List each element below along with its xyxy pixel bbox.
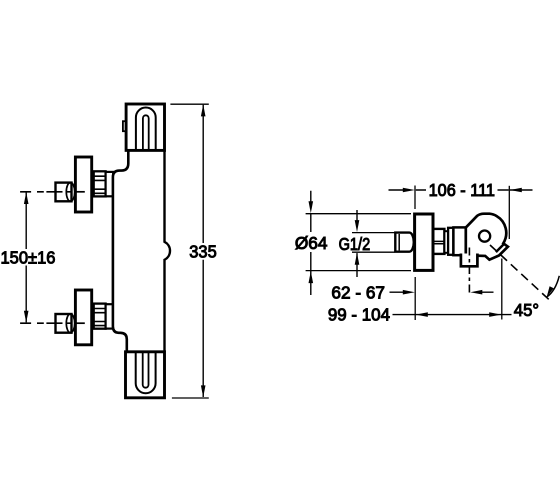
node: lower boss step collar bbox=[106, 304, 114, 328]
dimension Ø64 extension top bbox=[306, 213, 411, 215]
node: lower handle ribbed boss bbox=[94, 304, 106, 329]
wire: 45deg dashed axis bbox=[490, 245, 551, 301]
arrow 150±16 down bbox=[24, 311, 29, 323]
arrow 150±16 up bbox=[24, 192, 29, 204]
wire: upper supply centerline dashes bbox=[20, 191, 72, 193]
wire: upper centerline dash inside escutcheon bbox=[76, 191, 85, 193]
node: upper supply nut bbox=[56, 183, 72, 202]
wire: outlet centerline (dashed vertical) bbox=[468, 248, 470, 296]
dimension 335 extension line bottom bbox=[172, 397, 209, 399]
node: side collar large bbox=[453, 227, 465, 255]
dimension G1/2 extension top bbox=[352, 232, 395, 234]
arrow 62-67 right bbox=[470, 290, 482, 295]
node: bottom outlet block bbox=[461, 254, 478, 267]
node: top cap handle inner U bbox=[143, 115, 149, 150]
node: control knob circle bbox=[479, 231, 490, 242]
wire: side nut thread line bbox=[398, 234, 400, 251]
node: mixer body right contour with pipe bump bbox=[165, 151, 171, 353]
dimension 62-67 line bbox=[390, 291, 494, 293]
node: lower supply nut bbox=[56, 314, 72, 333]
node: side connector ring bbox=[444, 231, 448, 253]
node: top cap notch bbox=[123, 121, 127, 131]
arrow Ø64 bottom bbox=[309, 271, 314, 283]
arrow 106-111 right bbox=[510, 188, 522, 193]
arrow 106-111 left bbox=[403, 188, 415, 193]
dimension 106-111 extension line right bbox=[508, 186, 510, 239]
wire: 45deg arc bbox=[547, 276, 559, 297]
arrow 45deg arc bbox=[547, 286, 554, 297]
arrow 335 down bbox=[201, 385, 206, 397]
dimension 106-111 line bbox=[389, 189, 533, 191]
svg-text:150±16: 150±16 bbox=[1, 247, 56, 267]
node: body top cap bbox=[126, 104, 164, 150]
arrow 99-104 right bbox=[489, 312, 501, 317]
dimension 335 line bbox=[202, 105, 204, 397]
dimension 99-104 extension right bbox=[501, 259, 503, 320]
node: upper boss step collar bbox=[106, 172, 114, 196]
node: upper handle ribbed boss bbox=[94, 171, 106, 196]
dimension 335 extension line top bbox=[170, 103, 208, 105]
dimension Ø64 extension bottom bbox=[306, 270, 411, 272]
svg-text:106 - 111: 106 - 111 bbox=[429, 180, 495, 200]
node: top cap handle outer U bbox=[136, 108, 156, 151]
arrow Ø64 top bbox=[309, 201, 314, 213]
wire: lower centerline dash inside escutcheon bbox=[76, 322, 85, 324]
svg-text:Ø64: Ø64 bbox=[295, 233, 328, 253]
svg-text:45°: 45° bbox=[514, 300, 539, 320]
dimension 150±16 line bbox=[25, 192, 27, 322]
node: valve body with 45deg outlet bbox=[466, 214, 508, 260]
wire: lower supply centerline dashes bbox=[20, 322, 72, 324]
svg-text:335: 335 bbox=[189, 241, 216, 261]
dimension G1/2 line bbox=[356, 210, 358, 277]
svg-text:G1/2: G1/2 bbox=[339, 234, 371, 254]
wire: connector mid lines bbox=[433, 241, 444, 243]
dimension G1/2 extension bottom bbox=[352, 251, 395, 253]
arrow G1/2 bottom bbox=[355, 253, 360, 265]
node: mixer body left contour bbox=[113, 151, 128, 353]
node: side supply nut with domed end bbox=[395, 233, 413, 252]
dimension 106-111 extension line left bbox=[414, 186, 416, 210]
svg-text:62 - 67: 62 - 67 bbox=[331, 282, 385, 302]
node: side collar small bbox=[448, 228, 453, 255]
arrow 335 up bbox=[201, 104, 206, 116]
node: side escutcheon bbox=[415, 214, 433, 270]
node: bottom cap handle inner U bbox=[143, 352, 149, 388]
dimension 99-104 extension left bbox=[414, 277, 416, 320]
arrow 99-104 left bbox=[416, 312, 428, 317]
node: body bottom cap bbox=[126, 352, 165, 398]
wire: upper boss rib lines bbox=[94, 176, 106, 193]
arrow 62-67 left bbox=[403, 290, 415, 295]
dimension Ø64 line bbox=[310, 191, 312, 295]
node: upper escutcheon flange bbox=[75, 157, 91, 212]
node: lower escutcheon flange bbox=[75, 290, 91, 345]
arrow G1/2 top bbox=[355, 220, 360, 232]
dimension 99-104 line bbox=[393, 314, 512, 316]
node: upper supply nut dome bbox=[66, 183, 74, 202]
node: side connector threaded piece bbox=[433, 229, 444, 254]
wire: outlet end-face inner line bbox=[496, 243, 505, 252]
svg-text:99 - 104: 99 - 104 bbox=[328, 305, 390, 325]
wire: lower boss rib lines bbox=[94, 309, 106, 326]
node: lower supply nut dome bbox=[66, 314, 74, 333]
node: bottom cap handle outer U bbox=[136, 352, 156, 393]
